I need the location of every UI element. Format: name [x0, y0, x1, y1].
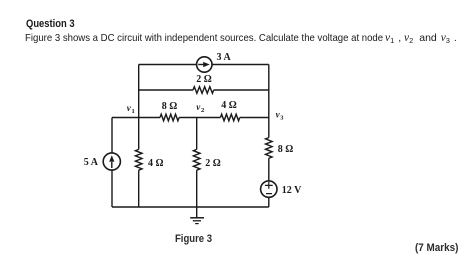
svg-text:8 Ω: 8 Ω [278, 144, 294, 155]
ground bar 1 [190, 217, 204, 219]
resistor R 4ohm vertical [135, 149, 142, 170]
resistor R 4ohm horizontal [220, 114, 239, 121]
caption Figure 3 [175, 233, 212, 245]
svg-text:2: 2 [201, 107, 204, 114]
wire between 8ohm and 4ohm [179, 117, 220, 119]
wire 4ohm to bottom [138, 170, 140, 207]
svg-text:3: 3 [280, 115, 284, 122]
heading Question 3 [26, 18, 75, 30]
resistor R 8ohm horizontal [160, 114, 179, 121]
marks label [415, 242, 458, 254]
wire v1 vertical below node [138, 118, 140, 150]
svg-text:8 Ω: 8 Ω [162, 101, 178, 112]
svg-text:5 A: 5 A [84, 157, 99, 168]
voltage source V1 12V [261, 181, 277, 197]
resistor R 8ohm vertical right [266, 138, 273, 159]
ground bar 2 [193, 220, 201, 222]
wire 12V to bottom [268, 197, 270, 207]
current source I1 3A [197, 57, 212, 72]
ground bar 3 [195, 223, 199, 225]
wire v1 vertical top loop [138, 65, 140, 118]
svg-text:2 Ω: 2 Ω [205, 158, 221, 169]
svg-text:4 Ω: 4 Ω [221, 100, 237, 111]
resistor R 2ohm top [193, 87, 214, 94]
wire bottom rail [112, 206, 269, 208]
svg-text:4 Ω: 4 Ω [148, 158, 164, 169]
wire top-left segment to 3A source [139, 64, 269, 66]
ground stem [196, 207, 198, 218]
resistor R 2ohm vertical [193, 149, 200, 170]
wire 2ohm to bottom [196, 170, 198, 207]
wire right edge top [268, 65, 270, 138]
wire left edge top [111, 118, 113, 208]
wire main node row: v1 to 8ohm [112, 117, 160, 119]
wire v2 vertical top [196, 118, 198, 150]
svg-text:3 A: 3 A [217, 52, 232, 63]
wire second row right segment [214, 89, 269, 91]
svg-text:2 Ω: 2 Ω [196, 74, 212, 85]
problem statement text [25, 32, 383, 44]
svg-text:12 V: 12 V [282, 185, 302, 196]
svg-text:1: 1 [132, 108, 135, 115]
wire 8ohm to 12V source [268, 158, 270, 181]
wire 4ohm to right edge [240, 117, 269, 119]
wire second row left segment [139, 89, 193, 91]
current source I2 5A [103, 153, 120, 170]
